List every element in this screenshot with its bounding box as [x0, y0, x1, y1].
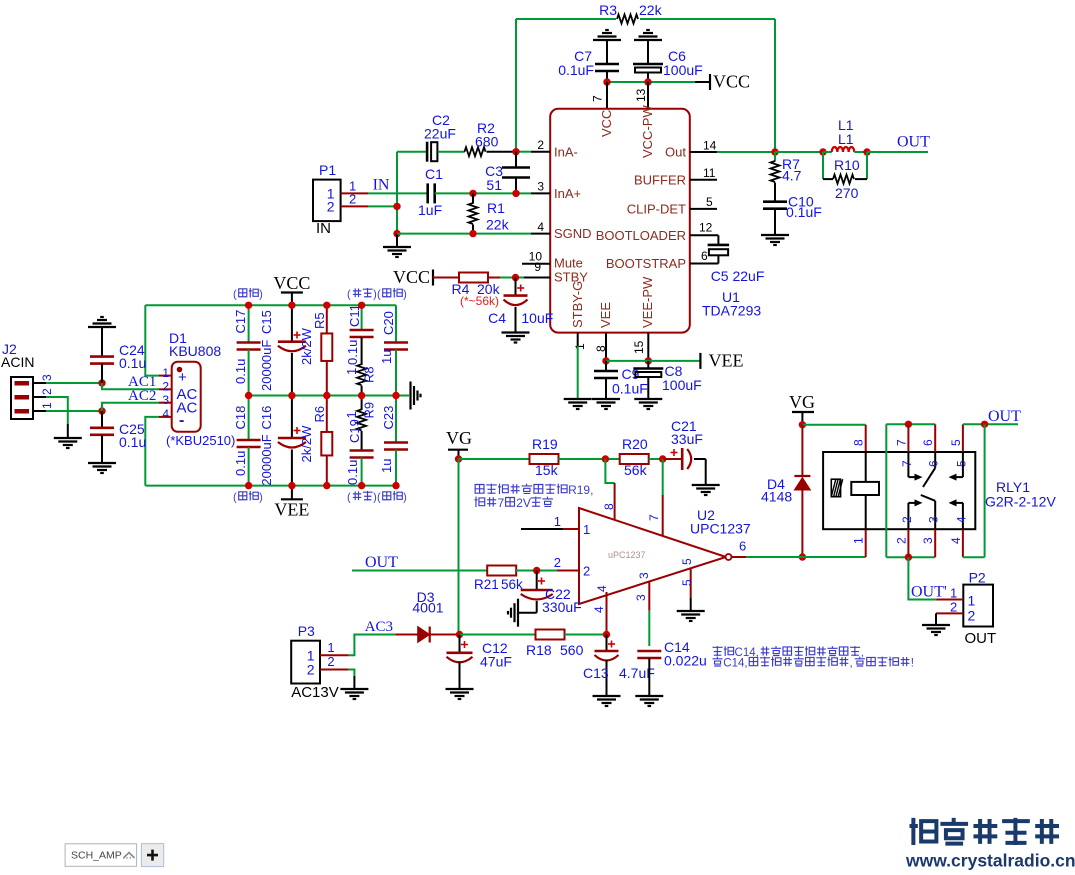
svg-text:3: 3: [637, 572, 651, 579]
svg-text:11: 11: [703, 166, 716, 180]
svg-text:1uF: 1uF: [418, 202, 442, 218]
svg-text:100uF: 100uF: [662, 377, 702, 393]
relay pin 8 stub: [865, 425, 867, 452]
connector J2: [11, 377, 33, 419]
svg-text:7: 7: [591, 95, 605, 102]
svg-text:4148: 4148: [761, 489, 792, 505]
svg-text:4: 4: [592, 606, 606, 613]
svg-text:15k: 15k: [535, 462, 559, 478]
svg-text:R1: R1: [487, 200, 505, 216]
svg-text:3: 3: [634, 594, 648, 601]
svg-text:2: 2: [583, 564, 590, 579]
svg-text:C1: C1: [425, 166, 443, 182]
J2 pin stubs: [33, 382, 46, 384]
wire feedback right vertical: [774, 19, 776, 152]
svg-text:BOOTSTRAP: BOOTSTRAP: [606, 256, 686, 271]
svg-text:VG: VG: [789, 392, 815, 412]
junction top C11: [358, 302, 365, 309]
power VEE tap: [699, 353, 701, 369]
svg-text:1u: 1u: [379, 350, 394, 364]
svg-text:6: 6: [739, 539, 746, 554]
wire input vertical: [396, 152, 398, 234]
power VEE bank: [291, 486, 293, 500]
svg-text:1: 1: [573, 343, 587, 350]
svg-text:0.1u: 0.1u: [233, 359, 248, 384]
resistor R19: [530, 454, 559, 464]
junction mid C17: [245, 392, 252, 399]
svg-text:3: 3: [921, 537, 935, 544]
svg-text:R21: R21: [474, 577, 499, 592]
svg-text:1: 1: [327, 640, 334, 655]
logo crystalradio: [910, 818, 937, 845]
capacitor C7: [595, 63, 619, 66]
svg-text:4.7: 4.7: [782, 168, 802, 184]
wire P3 pin2 to ground: [349, 670, 355, 677]
resistor R21: [487, 566, 516, 576]
ground C14: [635, 695, 663, 697]
svg-text:6: 6: [927, 460, 941, 467]
wire feedback left vertical: [515, 19, 517, 152]
svg-text:5: 5: [706, 195, 713, 209]
svg-text:1: 1: [344, 411, 359, 418]
svg-text:TDA7293: TDA7293: [702, 303, 761, 319]
wire C2 to R2: [438, 151, 464, 153]
ground C4: [502, 331, 530, 333]
wire pin14 to out node: [717, 151, 775, 153]
junction relay pin2 bottom: [905, 554, 912, 561]
capacitor C8: [647, 361, 649, 369]
junction InA- node: [512, 148, 519, 155]
svg-text:C16: C16: [259, 406, 274, 430]
junction top C15: [288, 302, 295, 309]
junction STBY node: [512, 274, 519, 281]
capacitor C23: [395, 396, 397, 443]
svg-text:): ): [403, 492, 407, 504]
ground input: [396, 234, 398, 246]
svg-text:680: 680: [475, 134, 499, 150]
capacitor C24: [90, 355, 114, 358]
svg-text:IN: IN: [316, 220, 331, 237]
wire R18 to pin4: [565, 634, 607, 636]
pin 15 stub bottom: [647, 333, 649, 361]
svg-text:G2R-2-12V: G2R-2-12V: [985, 494, 1056, 510]
capacitor C25: [101, 411, 103, 428]
svg-text:2: 2: [162, 380, 169, 394]
svg-text:InA-: InA-: [554, 145, 578, 160]
pin 5 stub: [690, 208, 717, 210]
svg-text:1: 1: [344, 368, 359, 375]
junction relay pin7 top: [905, 421, 912, 428]
wire sgnd rail: [397, 233, 531, 235]
junction VG relay: [799, 421, 806, 428]
svg-text:C13: C13: [583, 665, 609, 681]
connector P3: [291, 641, 320, 684]
junction OUT right: [981, 421, 988, 428]
ground C13: [593, 695, 621, 697]
svg-text:R20: R20: [622, 436, 648, 452]
relay coil: [865, 452, 867, 482]
U2 pin 6 stub: [732, 556, 747, 558]
ground psu mid: [409, 382, 411, 410]
svg-text:(: (: [377, 492, 381, 504]
wire C21 to pin7: [662, 459, 664, 495]
svg-text:2: 2: [327, 654, 334, 669]
wire pin6 to relay pin1: [746, 556, 866, 558]
wire out to R7 L1: [775, 151, 823, 153]
ground U2 pin5: [677, 610, 705, 612]
relay RLY1 body: [823, 452, 975, 529]
svg-text:): ): [259, 289, 263, 301]
ground C10: [761, 234, 789, 236]
svg-text:-: -: [179, 412, 184, 429]
svg-text:+: +: [178, 369, 187, 386]
svg-text:C20: C20: [381, 311, 396, 335]
wire VG to relay pin8: [802, 424, 865, 426]
svg-text:33uF: 33uF: [671, 431, 703, 447]
capacitor C1: [426, 183, 429, 203]
connector P2: [963, 585, 993, 627]
svg-text:R3: R3: [599, 2, 617, 18]
junction R1 bottom: [469, 230, 476, 237]
comparator U2 UPC1237 body: [579, 508, 726, 604]
svg-text:0.1u: 0.1u: [119, 355, 146, 371]
svg-text:1: 1: [950, 586, 957, 601]
relay pin 3 contact blade: [934, 529, 936, 557]
svg-text:(: (: [233, 492, 237, 504]
svg-text:R19: R19: [532, 436, 558, 452]
svg-text:13: 13: [634, 88, 648, 102]
svg-text:L1: L1: [838, 131, 854, 147]
annotation C14 note line1: [713, 646, 723, 656]
resistor R2: [465, 147, 486, 156]
junction InA+ node: [512, 190, 519, 197]
svg-text:R6: R6: [312, 406, 327, 423]
svg-text:9: 9: [534, 260, 541, 274]
svg-text:AC3: AC3: [365, 619, 393, 635]
wire pin3 to C14: [648, 611, 650, 646]
resistor R18: [536, 630, 565, 640]
ground P2 pin2: [935, 613, 937, 624]
P1 pin 2 stub: [341, 205, 368, 207]
junction top R5: [323, 302, 330, 309]
svg-text:Out: Out: [665, 145, 686, 160]
wire VG vertical: [458, 459, 460, 635]
wire pin1 to ground: [577, 346, 579, 398]
capacitor C2: [426, 142, 429, 162]
pin 1 stub bottom: [577, 333, 579, 346]
junction mid R8: [358, 392, 365, 399]
svg-text:0.1u: 0.1u: [345, 460, 360, 485]
wire VEE rail: [606, 360, 700, 362]
wire J2 pin3: [46, 382, 102, 384]
wire P1 pin1 to C1: [368, 192, 428, 194]
junction R19 R20: [602, 455, 609, 462]
junction bottom R6: [323, 482, 330, 489]
svg-text:22k: 22k: [639, 2, 663, 18]
svg-text:0.1uF: 0.1uF: [786, 204, 822, 220]
capacitor C10: [763, 200, 787, 203]
svg-text:VEE-PW: VEE-PW: [640, 276, 655, 328]
svg-text:IN: IN: [373, 177, 390, 194]
junction P1 pin2: [393, 203, 400, 210]
svg-text:P2: P2: [969, 570, 986, 586]
wire OUT net: [867, 151, 928, 153]
wire VG to R19: [459, 458, 530, 460]
relay pin 1 stub: [865, 529, 867, 557]
junction C22: [533, 567, 540, 574]
P2 pin 2 stub: [936, 612, 963, 614]
wire relay pin4 bottom: [963, 556, 985, 558]
junction C13: [603, 631, 610, 638]
ground above C7: [593, 39, 621, 41]
svg-text:0.1u: 0.1u: [119, 434, 146, 450]
resistor R3: [617, 15, 638, 24]
capacitor C19: [350, 449, 374, 452]
svg-text:0.1uF: 0.1uF: [612, 381, 648, 397]
svg-text:C18: C18: [233, 406, 248, 430]
pin 6 stub U1: [690, 263, 719, 265]
svg-text:3: 3: [927, 516, 941, 523]
wire J2 pin2 to ground: [46, 397, 68, 424]
pin 10 stub: [522, 263, 550, 265]
svg-text:VCC: VCC: [713, 72, 750, 92]
svg-text:14: 14: [703, 139, 717, 153]
pin 7 wire: [606, 82, 608, 109]
resistor R8: [357, 364, 366, 385]
svg-text:(: (: [347, 492, 351, 504]
diode D3: [395, 634, 417, 636]
svg-text:C5 22uF: C5 22uF: [711, 268, 765, 284]
svg-text:R9: R9: [362, 402, 377, 419]
wire OUT to R21: [352, 570, 488, 572]
svg-text:InA+: InA+: [554, 186, 581, 201]
wire C1 to pin3: [435, 192, 516, 194]
ground C22: [517, 599, 519, 627]
junction C6: [644, 78, 651, 85]
svg-text:2: 2: [349, 192, 356, 207]
ground C9: [592, 398, 620, 400]
wire pin8 connect: [605, 459, 614, 483]
U2 pin 7 stub: [662, 495, 664, 536]
svg-text:BOOTLOADER: BOOTLOADER: [596, 228, 686, 243]
pin 8 stub bottom: [605, 333, 607, 361]
svg-text:7: 7: [900, 460, 914, 467]
wire relay contact cage left: [885, 424, 887, 557]
svg-text:VCC: VCC: [393, 267, 430, 287]
svg-text:4: 4: [949, 537, 963, 544]
power VCC tap R4: [432, 270, 434, 286]
svg-text:20000uF: 20000uF: [259, 434, 274, 485]
svg-text:KBU808: KBU808: [169, 343, 221, 359]
svg-text:ACIN: ACIN: [1, 354, 34, 370]
svg-text:C14,: C14,: [723, 658, 747, 670]
capacitor C16: [291, 396, 293, 439]
svg-text:1u: 1u: [379, 459, 394, 473]
svg-text:VEE: VEE: [274, 499, 309, 519]
diode D4: [801, 425, 803, 476]
svg-text:3: 3: [162, 393, 169, 407]
svg-text:,: ,: [861, 647, 864, 659]
ground above C6: [634, 39, 662, 41]
power VCC bank: [291, 293, 293, 306]
svg-text:5: 5: [680, 558, 694, 565]
resistor R9: [361, 396, 363, 411]
pin 12 stub: [690, 234, 719, 236]
svg-text:7: 7: [894, 439, 908, 446]
junction C7: [603, 78, 610, 85]
svg-text:(*KBU2510): (*KBU2510): [166, 433, 235, 448]
svg-text:6: 6: [921, 439, 935, 446]
svg-text:4: 4: [162, 407, 169, 421]
svg-text:C15: C15: [259, 310, 274, 334]
op-amp U1 TDA7293 body: [550, 109, 690, 333]
junction out node: [771, 148, 778, 155]
wire P1 pin2 to vertical: [368, 205, 397, 207]
svg-text:OUT: OUT: [897, 134, 930, 151]
sheet tab control: [65, 844, 137, 867]
svg-text:AC13V: AC13V: [291, 684, 339, 701]
svg-text:5: 5: [954, 460, 968, 467]
junction C21: [659, 455, 666, 462]
svg-text:12: 12: [699, 221, 713, 235]
svg-text:2: 2: [900, 516, 914, 523]
annotation C14 note line2: [713, 657, 723, 666]
wire OUT right vertical: [984, 424, 986, 557]
relay coil hatch: [831, 479, 840, 497]
svg-text:CLIP-DET: CLIP-DET: [627, 201, 686, 216]
svg-text:270: 270: [835, 185, 859, 201]
svg-text:R18: R18: [526, 642, 552, 658]
U2 pin 2 stub: [557, 570, 579, 572]
wire P3 pin1 to AC3: [349, 635, 396, 656]
svg-text:VG: VG: [446, 428, 472, 448]
U2 pin 3 stub: [648, 581, 650, 611]
resistor R6: [326, 396, 328, 433]
svg-text:(: (: [347, 289, 351, 301]
svg-text:(: (: [233, 289, 237, 301]
resistor R10: [822, 152, 824, 179]
pin 13 wire: [647, 82, 649, 109]
rectifier D1 KBU808 body: [172, 362, 201, 432]
svg-text:2: 2: [968, 608, 976, 624]
pin 11 stub: [690, 179, 717, 181]
svg-text:OUT': OUT': [911, 584, 947, 601]
ground J2 pin2: [67, 424, 69, 437]
resistor R20: [620, 454, 649, 464]
svg-text:AC2: AC2: [128, 388, 156, 404]
capacitor C5: [708, 244, 730, 247]
resistor R1: [472, 193, 474, 203]
wire C12 to R18: [460, 634, 537, 636]
relay pin 6 contact blade: [934, 424, 936, 452]
svg-text:(: (: [377, 289, 381, 301]
svg-text:BUFFER: BUFFER: [634, 172, 686, 187]
wire R20 to C21: [649, 458, 663, 460]
U2 pin 8 stub: [614, 483, 616, 520]
svg-text:2: 2: [40, 388, 54, 395]
pin 9 stub: [524, 277, 550, 279]
svg-text:VCC: VCC: [599, 110, 614, 137]
power VCC tap top: [695, 81, 710, 83]
svg-text:1: 1: [162, 366, 169, 380]
svg-text:10uF: 10uF: [521, 310, 553, 326]
annotation adjust R19: [475, 485, 484, 494]
svg-text:): ): [259, 492, 263, 504]
svg-text:3: 3: [40, 374, 54, 381]
ground P3 pin2: [353, 676, 355, 688]
annotation pin7 2V: [475, 497, 485, 507]
resistor R4: [459, 273, 488, 283]
svg-text:2: 2: [307, 662, 315, 678]
svg-text:R10: R10: [834, 157, 860, 173]
capacitor C12: [461, 644, 468, 646]
capacitor C6: [633, 63, 663, 66]
svg-text:STBY-G: STBY-G: [570, 281, 585, 328]
relay pin 4 contact: [962, 529, 964, 557]
junction input ground: [393, 230, 400, 237]
svg-text:47uF: 47uF: [480, 654, 512, 670]
wire psu bottom rail: [145, 485, 396, 487]
junction R1 top: [469, 190, 476, 197]
ground C8: [634, 398, 662, 400]
capacitor C20: [395, 305, 397, 342]
P3 pin stubs: [320, 654, 349, 656]
svg-text:0.1uF: 0.1uF: [558, 62, 594, 78]
svg-text:5: 5: [949, 439, 963, 446]
junction C8: [645, 357, 652, 364]
svg-text:51: 51: [486, 177, 502, 193]
svg-text:3: 3: [537, 180, 544, 194]
svg-text:330uF: 330uF: [542, 599, 582, 615]
junction C24: [98, 379, 105, 386]
junction L1 right: [863, 148, 870, 155]
svg-text:8: 8: [602, 503, 616, 510]
svg-text:2k/2W: 2k/2W: [299, 327, 314, 365]
junction L1 left: [819, 148, 826, 155]
svg-text:2: 2: [327, 199, 335, 215]
svg-text:C17: C17: [233, 310, 248, 334]
svg-text:0.022u: 0.022u: [664, 653, 707, 669]
wire C7 C6 to VCC: [607, 81, 695, 83]
capacitor C13: [608, 643, 615, 645]
capacitor C4: [517, 287, 524, 289]
svg-text:uPC1237: uPC1237: [608, 550, 646, 560]
svg-text:C4: C4: [488, 310, 506, 326]
pin 14 stub: [690, 151, 717, 153]
svg-text:VCC-PW: VCC-PW: [640, 105, 655, 158]
svg-text:4001: 4001: [412, 600, 443, 616]
wire R4 to pin9: [488, 277, 501, 279]
svg-text:R19,: R19,: [568, 483, 593, 497]
svg-text:OUT: OUT: [965, 630, 997, 647]
ground pin1: [564, 398, 592, 400]
svg-text:8: 8: [594, 345, 608, 352]
ground C25: [88, 462, 116, 464]
add sheet button: [141, 844, 163, 867]
svg-text:20000uF: 20000uF: [259, 340, 274, 391]
svg-text:1: 1: [968, 593, 976, 609]
P2 pin 1 stub: [936, 599, 963, 601]
svg-text:): ): [403, 289, 407, 301]
svg-text:www.crystalradio.cn: www.crystalradio.cn: [905, 851, 1075, 871]
wire D1 pin4 dropper: [145, 417, 159, 486]
capacitor C11: [361, 305, 363, 330]
svg-text:!: !: [911, 658, 914, 670]
inductor L1: [823, 151, 832, 153]
svg-text:P3: P3: [298, 623, 315, 639]
wire R19 to R20: [559, 458, 620, 460]
capacitor C3: [515, 152, 517, 168]
